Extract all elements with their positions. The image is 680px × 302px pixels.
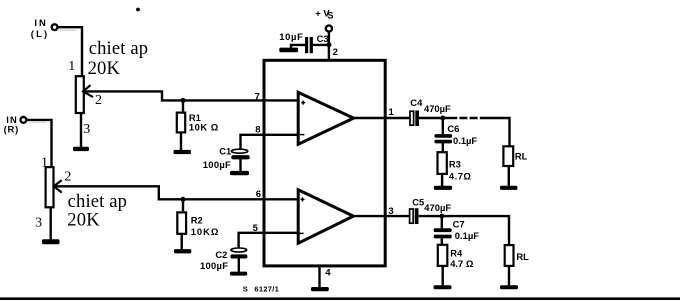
svg-text:1: 1 bbox=[41, 155, 48, 170]
svg-text:R4: R4 bbox=[450, 247, 463, 258]
svg-text:2: 2 bbox=[95, 93, 102, 108]
svg-text:7: 7 bbox=[255, 92, 260, 103]
svg-text:4: 4 bbox=[325, 268, 331, 279]
svg-text:C4: C4 bbox=[410, 97, 423, 108]
svg-text:4.7 Ω: 4.7 Ω bbox=[450, 258, 474, 269]
svg-text:20K: 20K bbox=[67, 210, 100, 231]
svg-text:100µF: 100µF bbox=[200, 260, 228, 271]
svg-text:IN: IN bbox=[34, 17, 47, 28]
svg-text:0.1µF: 0.1µF bbox=[455, 230, 479, 241]
svg-text:3: 3 bbox=[35, 215, 42, 230]
svg-text:5: 5 bbox=[253, 223, 259, 234]
svg-text:3: 3 bbox=[83, 122, 90, 137]
svg-text:10KΩ: 10KΩ bbox=[191, 226, 220, 237]
svg-text:RL: RL bbox=[515, 151, 528, 162]
svg-text:8: 8 bbox=[255, 124, 260, 135]
svg-text:C6: C6 bbox=[447, 123, 459, 134]
svg-text:10µF: 10µF bbox=[279, 31, 303, 42]
svg-text:6127/1: 6127/1 bbox=[254, 285, 279, 294]
svg-text:C7: C7 bbox=[453, 219, 465, 230]
svg-text:20K: 20K bbox=[88, 58, 121, 79]
svg-text:6: 6 bbox=[256, 189, 261, 200]
svg-text:S: S bbox=[327, 10, 333, 21]
svg-text:2: 2 bbox=[333, 47, 338, 58]
svg-text:C2: C2 bbox=[215, 249, 227, 260]
svg-text:RL: RL bbox=[516, 251, 529, 262]
svg-text:4.7Ω: 4.7Ω bbox=[449, 170, 472, 181]
svg-text:(L): (L) bbox=[31, 28, 50, 39]
svg-text:3: 3 bbox=[388, 206, 393, 217]
svg-text:C3: C3 bbox=[317, 33, 329, 44]
svg-text:(R): (R) bbox=[4, 124, 19, 135]
svg-text:1: 1 bbox=[389, 107, 395, 118]
svg-text:0.1µF: 0.1µF bbox=[453, 135, 477, 146]
svg-text:S: S bbox=[243, 285, 248, 294]
svg-text:R3: R3 bbox=[449, 158, 461, 169]
svg-text:C1: C1 bbox=[219, 145, 231, 156]
svg-text:C5: C5 bbox=[412, 197, 424, 208]
svg-text:1: 1 bbox=[68, 59, 75, 74]
svg-text:10K Ω: 10K Ω bbox=[189, 122, 219, 133]
svg-text:chiet ap: chiet ap bbox=[89, 38, 149, 59]
svg-text:470µF: 470µF bbox=[424, 103, 451, 114]
svg-text:470µF: 470µF bbox=[424, 202, 451, 213]
svg-text:R2: R2 bbox=[191, 214, 203, 225]
svg-text:2: 2 bbox=[64, 169, 71, 184]
svg-text:100µF: 100µF bbox=[203, 159, 231, 170]
